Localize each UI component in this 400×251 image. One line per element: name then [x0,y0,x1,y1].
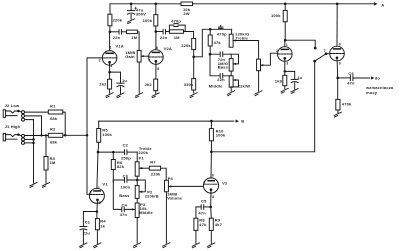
ground 330k [190,93,197,98]
node R10 tap on rail [210,120,213,123]
node V1 cathode [96,210,99,213]
wire bus to 100k V3A [284,4,286,11]
wire plate node to C2 [98,151,124,153]
resistor R7 220k [149,166,160,170]
node CF grid riser [313,60,316,63]
svg-text:47n: 47n [120,212,128,217]
svg-text:C3: C3 [123,173,129,178]
wire cathode to C5 [204,206,211,208]
wire V1 grid [87,135,90,194]
wire treble pot top [231,29,233,34]
node CF plate tap on bus [336,3,339,6]
node V3A cathode [284,70,287,73]
svg-text:8: 8 [157,67,159,71]
svg-text:B: B [241,119,244,124]
svg-text:47n: 47n [347,81,355,86]
potentiometer P2 Bass 220k/B [135,186,139,199]
triode V3A [278,47,293,62]
svg-text:250p: 250p [121,156,131,161]
resistor R8 47k [194,218,198,230]
resistor 2k2 V2A cathode [154,79,158,91]
ground R8 [192,243,199,248]
svg-text:8: 8 [212,195,214,199]
wire bottom B+ rail [99,120,234,122]
potentiometer Volume top channel [257,59,261,71]
wire 47u to ground [130,14,132,19]
triode V2A [149,50,164,65]
wire CF cathode down [336,58,339,78]
resistor R3 1M [44,157,48,171]
svg-text:Middle: Middle [139,210,153,215]
svg-text:C1: C1 [85,219,91,224]
svg-text:2: 2 [90,191,92,195]
svg-text:V2: V2 [222,180,228,185]
wire combo to 220k divider [184,32,194,39]
wire P3 bottom to ground [136,218,138,244]
svg-text:47k: 47k [199,222,207,227]
wire P2 bottom to P3 top [136,198,138,203]
jack J2 Low body [3,110,5,118]
svg-text:350V: 350V [136,11,146,16]
resistor 10k 2W (series in bus) [181,2,193,6]
node V1 plate [97,151,100,154]
connector arrow output [371,76,374,79]
potentiometer Middle 22k/W [229,76,233,87]
svg-text:82k: 82k [117,164,125,169]
wire gain pot to ground [138,62,140,93]
svg-text:68k: 68k [50,116,58,121]
capacitor C2 250p [125,150,127,155]
resistor R2 68k [48,133,63,137]
wire rail to R10 [210,121,212,129]
ground 2k2 V2A [152,93,159,98]
wire R9 to ground [210,230,212,243]
svg-text:R2: R2 [50,127,56,132]
wire coupling2 from plate node [156,31,163,33]
resistor 220k divider [192,38,196,49]
resistor 1M coupling1 [127,30,138,33]
svg-text:7: 7 [148,59,150,63]
contact circles J2 [22,111,25,114]
node stub end [314,47,317,50]
wire J2 sleeve riser [25,120,34,183]
svg-text:1u: 1u [297,75,302,80]
wire V2 cathode [210,190,212,207]
wire C3 row [113,179,137,181]
svg-text:22n: 22n [217,77,225,82]
svg-text:47n: 47n [198,210,206,215]
ground 1u V3A [291,89,298,94]
svg-text:Middle: Middle [209,84,223,89]
wire cathode to R9 [210,207,213,218]
wire R3 leads [45,135,47,183]
wire volume wiper to V3A grid [263,53,278,65]
wire V1 cathode [96,200,99,212]
svg-text:2: 2 [276,49,278,53]
wire C2 to P1 top lead [136,152,138,162]
svg-text:22n: 22n [113,35,121,40]
resistor 220k (V1A plate) [108,14,112,26]
ground volume pot [255,91,262,96]
svg-text:470k: 470k [342,102,352,107]
wire V3A plate node right [285,40,315,47]
capacitor C4 47n [122,207,124,212]
wire 100k to V3A plate [284,22,286,40]
svg-text:100k: 100k [102,132,112,137]
wire cathode to C1 [83,212,97,227]
resistor 2k2 V1A cathode [108,79,112,89]
wire P1 wiper to R7 [142,167,149,169]
svg-text:C2: C2 [123,143,129,148]
potentiometer P3 10k Middle [135,203,139,218]
svg-text:6: 6 [212,173,214,177]
svg-text:100k: 100k [143,18,153,23]
wire volume pot to ground [258,71,260,92]
svg-text:3: 3 [99,201,101,205]
wire J1 shunt [25,138,34,140]
svg-text:1M: 1M [50,160,56,165]
svg-text:1M: 1M [131,35,137,40]
wire R7 to P4 [161,168,167,180]
node CF output [336,77,339,80]
wire divider to 330k [193,57,195,79]
wire 220k to divider node [193,50,195,57]
ground R9 [208,243,215,248]
ground mid pot [228,91,235,96]
wire bass pot top [230,54,232,58]
jack J1 High body [3,133,5,141]
capacitor 1u V3A bypass [285,71,295,79]
resistor 47k slope [208,35,212,46]
wire P4 bottom to ground [165,192,167,243]
svg-text:Bass: Bass [119,193,130,198]
svg-text:R7: R7 [150,160,156,165]
node V3A plate [284,39,287,42]
resistor R9 4k7 [209,218,213,230]
resistor 100k (V2A plate) [154,15,158,26]
svg-text:Gain: Gain [125,54,135,59]
wire C2 to P1 [127,151,137,153]
node R6 tap [112,151,115,154]
svg-text:47k: 47k [214,40,222,45]
wire V2A cathode [155,61,157,79]
wire divider node up to tone feed [194,29,232,57]
triode V1A [102,51,117,66]
svg-text:470p: 470p [217,31,227,36]
ground 470k [334,112,341,117]
ground gain pot [136,93,143,98]
node grid riser [86,134,89,137]
wire R2 to grid node [63,134,87,136]
svg-text:100k: 100k [271,13,281,18]
ground jack sleeve riser [30,183,37,188]
ground 1k8 [281,88,288,93]
svg-text:220k: 220k [138,150,148,155]
ground P3 [134,243,141,248]
ground 1u V1A [117,93,124,98]
wiper arrow P3 [132,208,136,210]
wire R8 to ground [195,230,197,243]
wire P1 bottom to P2 top [136,176,138,185]
node J1 tip [17,133,20,136]
svg-text:7: 7 [324,49,326,53]
svg-text:100n: 100n [120,185,130,190]
node C3 join [136,179,139,182]
capacitor 1u V1A bypass [110,72,121,83]
svg-text:V1: V1 [102,181,108,186]
svg-text:J1 High: J1 High [5,124,21,129]
wire CF cathode to 470k [337,78,339,100]
svg-text:3: 3 [286,62,288,66]
wire top B+ bus left segment [110,3,181,5]
wire J1 sleeve [25,142,34,144]
node V2A plate [155,30,158,33]
resistor R5 100k [97,129,101,143]
svg-text:4k7: 4k7 [215,222,223,227]
potentiometer Gain 1M/B [137,50,141,62]
resistor 1k8 V3A cathode [283,75,287,85]
triode V2 bottom [203,178,218,193]
resistor 100k (V3A plate) [283,10,287,21]
svg-text:220k: 220k [113,18,123,23]
triode V1 bottom [89,188,104,203]
wire J2 tip to R1 [25,111,49,113]
wire 220k feed down [109,4,111,14]
capacitor 22n coupling1 [119,30,121,35]
wire R10 to V2 plate node [210,141,212,152]
wire V1A grid [87,58,102,135]
wire plate node to V2 [210,152,212,178]
node sleeve 2 [32,142,35,145]
svg-text:1: 1 [98,186,100,190]
node 100k V2A tap on bus [155,3,158,6]
svg-text:P4: P4 [168,176,174,181]
svg-text:7: 7 [204,180,206,184]
potentiometer Bass 1M/G [229,59,233,72]
svg-text:Volume: Volume [167,196,183,201]
svg-text:1M: 1M [174,35,180,40]
resistor 1M coupling2 [169,30,183,34]
svg-text:Bass: Bass [218,65,229,70]
node sleeve 1 [32,138,35,141]
wire P2 wiper loop [137,180,145,192]
wire bass row [210,53,239,55]
svg-text:1: 1 [286,43,288,47]
wire treble wiper to volume pot [236,41,259,60]
capacitor 22n mid [220,74,223,79]
svg-text:1: 1 [110,46,112,50]
node V1A cathode [108,71,111,74]
capacitor C6 47n [350,76,353,81]
node J2 shunt join [40,134,42,136]
wire mid row [210,54,231,76]
svg-text:1u: 1u [122,78,127,83]
wire 22n to 1M [122,31,127,33]
svg-text:220k: 220k [181,43,191,48]
svg-text:R1: R1 [50,104,56,109]
svg-text:1k8: 1k8 [275,78,283,83]
svg-text:P1: P1 [139,155,145,160]
svg-text:22u: 22u [83,230,91,235]
resistor R1 68k [48,110,63,114]
capacitor 470p coupling2 [174,24,178,27]
capacitor 470p treble [219,25,223,28]
svg-text:2W: 2W [183,11,189,16]
wire J1 tip row [25,135,49,137]
wire P4 wiper to V2 grid [171,185,203,187]
potentiometer P4 Volume 1M/B [165,180,169,192]
connector arrow A [374,2,378,5]
wire tone feed to 47k [209,29,211,35]
svg-text:A: A [381,2,384,7]
ground R3 [42,183,49,188]
wire bass pot to mid pot [230,71,232,76]
svg-text:C5: C5 [201,199,207,204]
wire C6 to out arrow [353,77,370,79]
svg-text:2k2: 2k2 [99,81,107,86]
contact circles J1 [22,134,25,137]
resistor R10 100k [209,129,213,141]
wire R4 to ground [96,230,98,244]
wire C5 to R8 [196,207,201,218]
node bass feed [209,53,212,56]
svg-text:J2 Low: J2 Low [5,103,20,108]
wire R5 to V1 plate node [97,142,100,152]
wire bus to 100k [155,4,157,15]
ground 47u [127,19,134,24]
wire J2 shunt [25,116,42,135]
resistor R6 82k [111,160,115,170]
svg-text:do: do [375,75,381,80]
node V1A plate [109,31,112,34]
wire V3A cathode [284,58,286,71]
node 47k tap [209,28,212,31]
wire 47k to bass node [209,46,211,54]
ground 2k2 V1A [106,93,113,98]
wire V1A cathode [109,62,111,72]
capacitor C1 22u [80,226,87,228]
capacitor 72n bass [220,52,223,57]
wire 47u cap lead [130,4,132,11]
resistor R4 1k [96,212,98,219]
svg-text:2k2: 2k2 [145,82,153,87]
svg-text:V1A: V1A [116,43,124,48]
wire R1 to input node [63,112,65,135]
wire gain wiper to V2A grid [144,55,149,57]
svg-text:22n: 22n [160,35,168,40]
svg-text:22k/W: 22k/W [238,84,251,89]
wire 22n2 to parallel combo [166,31,170,33]
wire C4 row [113,180,131,209]
svg-text:V2A: V2A [164,46,172,51]
node diagonal [325,52,328,55]
node 47u tap on bus [130,3,133,6]
svg-text:220k: 220k [151,172,161,177]
wire R6 leads [112,152,114,182]
capacitor C3 100n [125,178,127,183]
wire output C6 [338,77,350,79]
resistor 330k divider [192,79,196,90]
capacitor 22n coupling2 [163,29,165,34]
wire CF grid diagonal [315,54,330,61]
ground R4 [94,243,101,248]
svg-text:C6: C6 [348,71,354,76]
wire top B+ bus right segment [193,3,375,5]
node 100k V3A tap on bus [284,3,287,6]
connector arrow B [236,120,239,123]
svg-text:68k: 68k [50,139,58,144]
svg-text:Treble: Treble [235,35,248,40]
svg-text:6: 6 [156,46,158,50]
wire 220k to plate node [109,26,111,32]
svg-text:8: 8 [339,43,341,47]
svg-text:100k: 100k [216,132,226,137]
potentiometer Treble 220k/G [229,34,233,47]
svg-text:330k: 330k [184,82,194,87]
capacitor 47u/350V electrolytic [127,10,134,12]
wire rail to R5 [98,121,100,128]
wire 100k to V2A plate node [155,26,157,32]
triode V3B cathode follower [330,46,345,61]
resistor 470k CF [336,99,340,110]
node V2 plate [210,151,213,154]
node V2 cathode [209,206,212,209]
wire 470p loop [169,25,185,31]
svg-text:470p: 470p [171,18,181,23]
svg-text:220k/B: 220k/B [145,193,159,198]
node R1 drop [64,134,67,137]
wire riser to bottom section [211,61,314,152]
svg-text:1k: 1k [100,223,105,228]
svg-text:2: 2 [99,59,101,63]
svg-text:mocy: mocy [366,90,378,95]
svg-text:3: 3 [110,64,112,68]
node J2 tip [17,110,20,113]
node R3 tap [45,134,47,136]
svg-text:C4: C4 [122,203,128,208]
ground P4 [163,243,170,248]
wire coupling1 from plate node [110,31,119,33]
ground C1 [80,243,87,248]
potentiometer P1 Treble 220k [135,162,139,176]
wire 1M to gain pot [138,32,140,51]
wire 330k to ground [193,90,195,93]
capacitor C5 47n [201,205,204,210]
node divider [192,56,195,59]
wire mid pot to ground [230,87,232,91]
svg-text:9: 9 [339,62,341,66]
